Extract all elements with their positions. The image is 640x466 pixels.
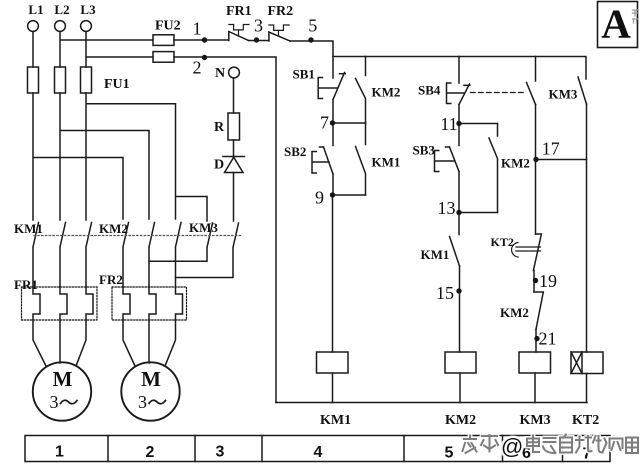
node 15 bbox=[456, 266, 461, 294]
thermal relay FR2 heaters bbox=[112, 287, 187, 320]
svg-text:FU2: FU2 bbox=[155, 19, 181, 34]
terminal N bbox=[229, 67, 240, 78]
svg-text:L2: L2 bbox=[54, 2, 69, 17]
svg-text:FR2: FR2 bbox=[99, 272, 123, 287]
bottom control bus wire bbox=[276, 402, 587, 404]
wire SB4 to node 11 bbox=[458, 105, 460, 124]
terminal L2 bbox=[55, 21, 66, 32]
svg-text:FR2: FR2 bbox=[268, 4, 294, 19]
watermark fragment top right bbox=[633, 10, 638, 23]
svg-text:M: M bbox=[53, 367, 73, 391]
svg-text:3: 3 bbox=[254, 16, 263, 36]
svg-text:5: 5 bbox=[308, 16, 317, 36]
svg-text:KM3: KM3 bbox=[520, 413, 551, 428]
svg-text:3: 3 bbox=[50, 392, 59, 412]
svg-text:KM2: KM2 bbox=[445, 413, 476, 428]
contact KT2 delayed NC bbox=[512, 160, 542, 271]
node 21 bbox=[534, 329, 539, 352]
wire node 15 to coil KM2 bbox=[459, 291, 461, 352]
pushbutton SB4 bbox=[447, 57, 470, 105]
svg-text:KM2: KM2 bbox=[500, 305, 529, 320]
pushbutton SB2 bbox=[312, 123, 333, 174]
contact KM1 aux NO bbox=[356, 123, 366, 195]
thermal contact FR2 bbox=[269, 25, 290, 41]
wire 1-3 bbox=[249, 40, 269, 42]
svg-text:1: 1 bbox=[55, 444, 64, 461]
svg-text:A: A bbox=[601, 1, 631, 47]
svg-text:N: N bbox=[215, 66, 225, 81]
fuse FU2 bbox=[153, 35, 174, 62]
zone box A bbox=[598, 2, 638, 48]
node 7 bbox=[330, 120, 366, 125]
label M2 bbox=[138, 367, 166, 412]
wire SB4NC to node 17 bbox=[535, 105, 537, 160]
control bus wire bbox=[333, 57, 586, 80]
watermark bbox=[463, 434, 639, 459]
linkage KM main contacts bbox=[34, 235, 243, 237]
svg-text:15: 15 bbox=[436, 283, 454, 303]
svg-text:1: 1 bbox=[193, 19, 202, 39]
fuse FU1 bbox=[28, 67, 92, 93]
svg-text:R: R bbox=[214, 120, 225, 135]
contact KM1 NC bbox=[450, 213, 460, 267]
node 5 bbox=[308, 37, 313, 42]
pushbutton SB3 bbox=[435, 124, 460, 172]
wire line 1 bbox=[174, 39, 229, 41]
wire node 9 to coil KM1 bbox=[332, 195, 334, 352]
svg-text:@: @ bbox=[501, 434, 523, 459]
wire coil KT2 to bus bbox=[586, 374, 588, 403]
svg-text:FR1: FR1 bbox=[14, 277, 38, 292]
svg-text:3: 3 bbox=[216, 444, 225, 461]
svg-text:L1: L1 bbox=[28, 2, 43, 17]
svg-text:19: 19 bbox=[539, 271, 557, 291]
node 1 bbox=[202, 37, 207, 42]
node 17 bbox=[533, 157, 586, 162]
svg-text:SB2: SB2 bbox=[284, 144, 306, 159]
node 11 bbox=[456, 121, 497, 126]
svg-text:KM2: KM2 bbox=[99, 221, 128, 236]
svg-text:9: 9 bbox=[315, 188, 324, 208]
wire SB3 to node 13 bbox=[458, 172, 460, 213]
svg-text:2: 2 bbox=[193, 58, 202, 78]
svg-text:KM2: KM2 bbox=[372, 85, 401, 100]
svg-text:13: 13 bbox=[438, 198, 456, 218]
svg-text:3: 3 bbox=[138, 392, 147, 412]
coil KT2 bbox=[571, 352, 603, 374]
node 3 bbox=[254, 37, 259, 42]
wire line 2 bbox=[174, 57, 276, 403]
svg-text:KM1: KM1 bbox=[372, 155, 401, 170]
thermal contact FR1 bbox=[229, 25, 249, 41]
svg-text:KM2: KM2 bbox=[501, 156, 530, 171]
svg-text:2: 2 bbox=[146, 444, 155, 461]
pushbutton SB4 NC contact bbox=[527, 57, 536, 105]
coil KM1 bbox=[317, 352, 349, 373]
node 2 bbox=[202, 55, 207, 60]
linkage SB4 bbox=[471, 92, 526, 94]
svg-text:KT2: KT2 bbox=[491, 235, 514, 249]
contactor KM2 main contacts bbox=[123, 223, 181, 288]
contact KM2 aux NO bbox=[356, 57, 366, 124]
terminal L3 bbox=[81, 21, 92, 32]
wire phase L2 bbox=[60, 32, 153, 221]
wire coil KM1 to bus bbox=[332, 373, 334, 403]
contact KM2 aux NO 2 bbox=[489, 124, 498, 213]
pushbutton SB1 bbox=[318, 57, 345, 100]
wire phase L1 bbox=[33, 32, 123, 221]
svg-text:FR1: FR1 bbox=[226, 4, 252, 19]
svg-text:21: 21 bbox=[539, 329, 557, 349]
diode D bbox=[223, 157, 245, 173]
wire coil KM3 to bus bbox=[534, 373, 536, 403]
svg-text:5: 5 bbox=[445, 445, 454, 462]
svg-text:FU1: FU1 bbox=[104, 77, 130, 92]
node 19 bbox=[533, 271, 538, 293]
svg-text:11: 11 bbox=[440, 114, 457, 134]
wires FR2 to motor M2 bbox=[123, 320, 176, 366]
svg-text:4: 4 bbox=[314, 444, 323, 461]
svg-text:KT2: KT2 bbox=[572, 413, 599, 428]
svg-text:SB1: SB1 bbox=[293, 67, 315, 82]
svg-text:SB4: SB4 bbox=[418, 83, 441, 98]
resistor R bbox=[228, 113, 240, 140]
svg-text:KM1: KM1 bbox=[14, 221, 43, 236]
wire SB1 to node 7 bbox=[332, 100, 334, 124]
wire N to R bbox=[233, 78, 235, 113]
svg-text:M: M bbox=[141, 367, 161, 391]
contact KM3 aux NO bbox=[578, 77, 587, 104]
motor M1 bbox=[33, 362, 91, 420]
wire D to KM3 pole2 bbox=[233, 173, 235, 222]
coil KM3 bbox=[519, 352, 551, 373]
wire coil KM2 to bus bbox=[459, 373, 461, 403]
coil KM2 bbox=[445, 352, 476, 373]
location table bbox=[25, 436, 610, 462]
wire R to D bbox=[233, 140, 235, 157]
thermal relay FR1 heaters bbox=[22, 287, 98, 320]
wire KM3 aux to KT2 coil bbox=[586, 104, 588, 352]
svg-text:7: 7 bbox=[320, 113, 329, 133]
svg-text:KM1: KM1 bbox=[320, 413, 351, 428]
wires FR1 to motor M1 bbox=[33, 320, 86, 366]
svg-text:L3: L3 bbox=[80, 2, 96, 17]
contactor KM1 main contacts bbox=[33, 223, 92, 288]
contact KM2 NC bbox=[534, 292, 543, 329]
wire 3-5 to control bus bbox=[290, 41, 333, 57]
node 9 bbox=[330, 192, 366, 197]
wire SB2 to node 9 bbox=[332, 174, 334, 195]
contactor KM3 main contacts bbox=[149, 223, 239, 278]
svg-text:KM1: KM1 bbox=[421, 247, 450, 262]
wire phase L3 bbox=[86, 32, 207, 222]
svg-text:KM3: KM3 bbox=[189, 220, 218, 235]
node 13 bbox=[456, 210, 497, 215]
svg-text:SB3: SB3 bbox=[413, 143, 436, 158]
svg-text:17: 17 bbox=[542, 139, 560, 159]
terminal L1 bbox=[28, 21, 39, 32]
label M1 bbox=[50, 367, 78, 412]
svg-text:KM3: KM3 bbox=[549, 87, 578, 102]
svg-text:D: D bbox=[214, 158, 224, 173]
motor M2 bbox=[121, 362, 179, 420]
